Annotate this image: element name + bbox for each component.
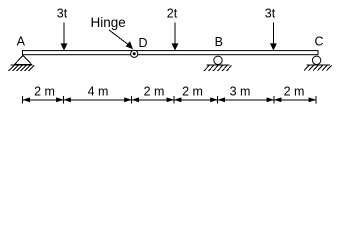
- dimension label 4 m (first load to hinge): [88, 85, 109, 99]
- svg-text:B: B: [215, 35, 223, 49]
- load arrow 3t right: [270, 23, 277, 51]
- pin support A triangle: [14, 55, 32, 64]
- dimension label 2 m (hinge to 2t load): [144, 85, 165, 99]
- node label A: [17, 35, 26, 49]
- pin support A ground line: [10, 64, 32, 66]
- dimension label 3 m (B to second 3t load): [230, 85, 251, 99]
- svg-text:2t: 2t: [167, 7, 178, 21]
- svg-text:A: A: [17, 35, 26, 49]
- load arrow 3t left: [61, 23, 68, 51]
- pin support A hatching: [9, 65, 35, 71]
- load label 3t left: [57, 7, 68, 21]
- svg-text:2 m: 2 m: [34, 85, 55, 99]
- dimension label 2 m (second 3t load to C): [284, 85, 305, 99]
- svg-text:C: C: [314, 35, 323, 49]
- roller support C circle: [312, 56, 320, 64]
- load arrow 2t: [172, 23, 179, 51]
- svg-text:2 m: 2 m: [182, 85, 203, 99]
- label Hinge: [91, 15, 126, 30]
- svg-text:D: D: [138, 36, 147, 50]
- dimension ticks: [23, 96, 316, 104]
- svg-text:2 m: 2 m: [144, 85, 165, 99]
- svg-text:Hinge: Hinge: [91, 15, 126, 30]
- hinge D circle: [131, 50, 138, 57]
- hinge pointer arrow: [109, 30, 133, 49]
- node label D: [138, 36, 147, 50]
- dimension label 2 m (A to first load): [34, 85, 55, 99]
- node label B: [215, 35, 223, 49]
- svg-text:4 m: 4 m: [88, 85, 109, 99]
- dimension main line: [23, 99, 316, 101]
- svg-text:3t: 3t: [57, 7, 68, 21]
- beam A-C: [23, 51, 319, 55]
- roller support B ground line: [207, 64, 230, 66]
- svg-text:3 m: 3 m: [230, 85, 251, 99]
- svg-text:3t: 3t: [265, 7, 276, 21]
- roller support C ground line: [307, 64, 331, 66]
- roller support C hatching: [304, 65, 332, 71]
- node label C: [314, 35, 323, 49]
- roller support B hatching: [204, 66, 232, 72]
- dimension arrowheads: [23, 97, 316, 102]
- load label 2t: [167, 7, 178, 21]
- roller support B circle: [214, 56, 222, 64]
- dimension label 2 m (2t load to B): [182, 85, 203, 99]
- svg-text:2 m: 2 m: [284, 85, 305, 99]
- load label 3t right: [265, 7, 276, 21]
